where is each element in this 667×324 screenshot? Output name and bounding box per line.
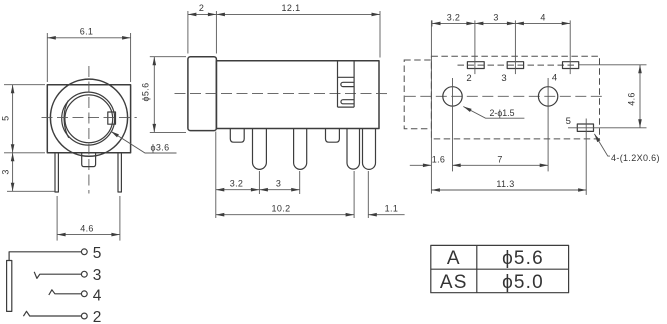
dim 5: [1, 85, 45, 153]
pad label 4: [552, 73, 557, 84]
top view pads row dashed line: [458, 64, 578, 66]
svg-text:4-(1.2X0.6): 4-(1.2X0.6): [611, 153, 660, 163]
dim 3: [1, 153, 55, 192]
table cell phi5.0: [502, 272, 544, 293]
svg-text:ϕ5.6: ϕ5.6: [140, 83, 150, 102]
front view ring circle: [62, 92, 115, 145]
svg-text:4.6: 4.6: [80, 223, 94, 233]
svg-text:ϕ3.6: ϕ3.6: [151, 142, 170, 152]
dim 3.2 side: [216, 132, 260, 219]
svg-text:4: 4: [540, 12, 545, 22]
schematic label 2: [93, 309, 102, 324]
svg-text:10.2: 10.2: [272, 203, 291, 213]
top view centerline: [405, 95, 605, 97]
pad 5 horizontal line: [568, 127, 647, 129]
dim 4 top: [515, 12, 570, 25]
side view long leg A: [253, 129, 267, 170]
front view right leg: [118, 153, 121, 192]
dim 1.6: [410, 154, 445, 167]
dim phi5.6: [140, 57, 186, 133]
table cell A: [447, 248, 461, 269]
pad label 3: [501, 73, 506, 84]
svg-text:2: 2: [466, 73, 471, 84]
schematic label 5: [93, 245, 102, 262]
dim 2: [188, 3, 217, 53]
svg-text:4: 4: [552, 73, 557, 84]
front view center protrusion: [82, 153, 96, 166]
side view body: [216, 61, 379, 129]
schematic label 3: [93, 267, 102, 284]
schematic terminal circle 4: [81, 291, 87, 297]
dim 3 side: [259, 171, 299, 194]
side view stub leg 1: [230, 129, 244, 143]
top view body dashed outline: [431, 56, 599, 139]
side view long leg D: [363, 129, 376, 170]
front view notch rectangle: [108, 112, 116, 124]
svg-text:3: 3: [276, 179, 281, 189]
svg-text:1.1: 1.1: [385, 203, 399, 213]
dim 7: [452, 154, 548, 167]
front view inner hole circle: [64, 95, 113, 143]
schematic sleeve: [7, 261, 12, 312]
svg-text:2: 2: [93, 309, 102, 324]
svg-text:3.2: 3.2: [230, 179, 244, 189]
schematic contact wire 3: [34, 272, 81, 279]
side view long leg C: [347, 129, 360, 170]
svg-text:ϕ5.6: ϕ5.6: [502, 248, 544, 269]
svg-text:6.1: 6.1: [80, 27, 94, 37]
front view outer circle (bushing): [50, 79, 127, 156]
pad 4: [563, 62, 579, 69]
svg-text:3: 3: [493, 12, 498, 22]
pad label 2: [466, 73, 471, 84]
table cell AS: [440, 272, 468, 293]
svg-text:ϕ5.0: ϕ5.0: [502, 272, 544, 293]
table cell phi5.6: [502, 248, 544, 269]
front view horizontal centerline: [42, 117, 137, 119]
top view left extension line: [430, 20, 432, 193]
side view stub leg 2: [326, 129, 340, 143]
dim 4.6: [57, 196, 120, 241]
schematic terminal circle 5: [81, 249, 87, 255]
svg-text:12.1: 12.1: [282, 3, 301, 13]
svg-text:3.2: 3.2: [447, 12, 461, 22]
svg-text:4.6: 4.6: [626, 92, 636, 106]
svg-text:2: 2: [199, 3, 204, 13]
svg-text:3: 3: [93, 267, 102, 284]
side view spring contact: [338, 61, 355, 107]
hole 2 vertical centerline: [547, 78, 549, 171]
front view left leg: [55, 153, 58, 192]
pad 5: [577, 124, 593, 131]
hole circle 1: [443, 87, 462, 106]
svg-text:5: 5: [1, 116, 11, 121]
dim 3.2 top: [432, 12, 475, 26]
svg-text:5: 5: [566, 116, 571, 127]
pad 3: [507, 62, 523, 69]
pad 5 tick: [585, 119, 587, 195]
svg-text:5: 5: [93, 245, 102, 262]
svg-text:3: 3: [501, 73, 506, 84]
side view long leg B: [294, 129, 307, 170]
schematic label 4: [93, 287, 102, 304]
hole circle 2: [538, 87, 557, 106]
top view barrel dashed outline: [404, 60, 431, 129]
svg-text:3: 3: [1, 169, 11, 174]
dim 10.2: [216, 171, 354, 218]
dim 12.1: [216, 3, 380, 57]
dim 3 top: [475, 12, 516, 25]
svg-text:4: 4: [93, 287, 102, 304]
leader 2-phi1.5: [462, 105, 524, 118]
schematic terminal circle 3: [81, 271, 87, 277]
front view body square: [47, 85, 130, 153]
side view flange: [188, 57, 217, 131]
svg-text:2-ϕ1.5: 2-ϕ1.5: [490, 108, 515, 118]
spec table frame: [431, 245, 569, 292]
dim 11.3: [431, 179, 586, 192]
schematic terminal circle 2: [81, 313, 87, 319]
svg-text:1.6: 1.6: [432, 154, 446, 164]
pad 2 tick: [474, 20, 476, 74]
dim 1.1: [368, 171, 404, 218]
front view vertical centerline: [88, 66, 90, 194]
dim 4.6 top view: [579, 65, 647, 128]
schematic contact wire 4: [49, 290, 82, 295]
pad 3 tick: [514, 20, 516, 74]
svg-text:AS: AS: [440, 272, 468, 293]
dim 6.1: [47, 27, 130, 82]
pad label 5: [566, 116, 571, 127]
leader phi3.6: [110, 130, 177, 153]
hole 1 vertical centerline: [452, 78, 454, 171]
svg-text:7: 7: [497, 154, 502, 164]
schematic contact wire 2: [23, 311, 81, 316]
svg-text:11.3: 11.3: [496, 179, 514, 189]
svg-text:A: A: [447, 248, 461, 269]
pad 4 tick: [569, 20, 571, 74]
schematic wire terminal 5: [9, 252, 81, 261]
pad 2: [467, 62, 484, 69]
leader 4-(1.2X0.6): [593, 133, 660, 163]
side view centerline: [175, 93, 391, 95]
